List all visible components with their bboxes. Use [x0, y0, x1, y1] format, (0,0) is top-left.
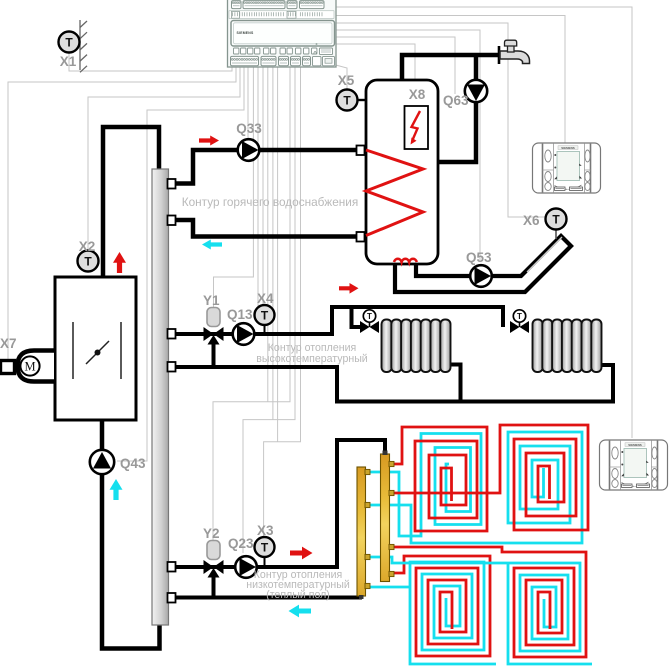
node separator stub HT supply — [168, 329, 176, 339]
wire solar collector loop upper pipe through Q53 — [395, 236, 571, 292]
wire controller to X7 — [8, 67, 236, 359]
wire controller spare 3 — [277, 67, 279, 442]
svg-text:X8: X8 — [409, 87, 426, 102]
flow arrow boiler supply — [113, 252, 126, 273]
wire HT radiator 1 feed drop — [352, 307, 361, 327]
node tank coil stub upper — [357, 146, 365, 156]
svg-text:T: T — [367, 312, 372, 321]
svg-text:T: T — [261, 308, 269, 322]
svg-text:Q53: Q53 — [466, 250, 492, 265]
pump Q43 — [90, 450, 114, 474]
flow arrow LT supply — [290, 547, 313, 560]
wire LT floor return pipe from manifold — [176, 594, 362, 598]
node separator stub HT return — [168, 362, 176, 372]
svg-text:(теплый пол): (теплый пол) — [266, 589, 330, 601]
sensor X6 — [546, 209, 567, 230]
sensor X2 — [78, 251, 99, 272]
wire controller to X1 — [69, 52, 232, 71]
svg-text:высокотемпературный: высокотемпературный — [256, 353, 368, 365]
wire controller to X6 — [336, 23, 546, 217]
wire DHW primary supply pipe through Q33 to tank coil — [176, 150, 360, 184]
wire HT heating return pipe — [176, 365, 613, 402]
flow arrow LT return — [289, 605, 312, 618]
wire DHW primary return pipe from tank coil — [176, 220, 360, 237]
node separator stub LT return — [168, 593, 176, 603]
sensor X4 — [264, 324, 266, 334]
svg-text:Q43: Q43 — [120, 456, 146, 471]
floor loop 3 return pipe (cyan) — [368, 562, 496, 664]
svg-text:X4: X4 — [257, 291, 274, 306]
wire controller to Q33 — [247, 67, 249, 138]
svg-text:Q33: Q33 — [236, 121, 262, 136]
svg-text:X2: X2 — [79, 239, 96, 254]
svg-text:T: T — [343, 93, 351, 107]
electric heater — [405, 106, 429, 149]
svg-text:T: T — [84, 254, 92, 268]
wire Y2 valve bypass link — [212, 575, 216, 598]
svg-text:X7: X7 — [0, 336, 17, 351]
pump Q53 — [470, 265, 492, 287]
svg-text:X1: X1 — [60, 54, 77, 69]
svg-text:Y2: Y2 — [203, 526, 220, 541]
svg-text:Контур горячего водоснабжения: Контур горячего водоснабжения — [182, 195, 359, 209]
wire controller to X5 — [332, 64, 347, 90]
storage tank X8 — [366, 80, 438, 264]
wire controller spare 2 — [272, 67, 274, 420]
wire HT heating supply pipe through Y1 and Q13 — [176, 307, 503, 334]
wire collector panel highlight — [527, 237, 562, 272]
svg-text:Q23: Q23 — [228, 536, 254, 551]
svg-text:Q63: Q63 — [443, 93, 469, 108]
valve Y1 three-way — [204, 327, 214, 341]
pump Q33 — [238, 139, 260, 161]
wire DHW circulation pipe through Q63 — [436, 55, 476, 162]
svg-text:T: T — [65, 35, 73, 49]
wire controller to Q63 — [336, 37, 455, 94]
wire Y1 valve bypass link — [212, 342, 216, 367]
hydraulic separator — [152, 169, 169, 625]
floor loop 2 return pipe (cyan) — [368, 432, 582, 543]
wire controller to X3 — [264, 67, 301, 536]
boiler damper symbol — [72, 322, 74, 379]
motor X7 — [18, 351, 55, 382]
svg-text:T: T — [261, 540, 269, 554]
svg-text:X3: X3 — [257, 523, 274, 538]
wire radiator 1 return drop — [449, 365, 461, 402]
radiator 2 — [533, 320, 543, 373]
wire LT floor supply pipe through Y2 and Q23 — [176, 440, 385, 567]
svg-text:T: T — [552, 212, 560, 226]
boiler — [55, 277, 136, 420]
flow arrow HT supply — [339, 283, 359, 294]
thermostatic valve radiator 2 — [510, 321, 520, 333]
wire controller to X4 — [262, 67, 264, 305]
tank heat exchanger coil — [366, 150, 423, 236]
svg-text:SIEMENS: SIEMENS — [237, 31, 254, 35]
floor loop 4 supply pipe (red spiral) — [388, 547, 586, 657]
room unit A (QAA) — [533, 143, 601, 193]
wire boiler return pipe from separator bottom through Q43 — [102, 421, 160, 649]
pump Q63 — [465, 80, 487, 102]
wire controller to room unit A — [336, 16, 565, 144]
floor heating manifold right (supply) — [381, 454, 390, 582]
flow arrow boiler return — [110, 479, 123, 500]
svg-text:X5: X5 — [338, 73, 355, 88]
wire controller to Q43 — [117, 67, 244, 461]
wire controller spare 1 — [267, 67, 269, 402]
radiator 1 — [382, 320, 392, 373]
controller U1 (Siemens) — [228, 0, 337, 67]
wire controller to X8 heater — [336, 44, 415, 104]
flow arrow DHW return — [202, 240, 222, 250]
svg-text:Y1: Y1 — [203, 293, 220, 308]
valve Y2 three-way — [204, 560, 214, 574]
wire controller to Q53 — [336, 30, 480, 260]
node tank coil stub lower — [357, 232, 365, 242]
floor loop 4 return pipe (cyan) — [368, 557, 592, 664]
wall hatching — [79, 20, 81, 70]
svg-text:M: M — [24, 360, 35, 374]
room unit B (QAA) — [600, 440, 668, 490]
node separator stub DHW return — [168, 216, 176, 226]
wire boiler supply pipe to separator — [103, 127, 159, 276]
faucet — [498, 46, 501, 64]
wire controller to X2 — [88, 67, 240, 249]
node separator stub DHW supply — [168, 179, 176, 189]
node separator stub LT supply — [168, 562, 176, 572]
wire tank top pipe to faucet — [402, 55, 499, 84]
solar coil at tank bottom — [394, 259, 417, 262]
wire controller to Y1 — [214, 67, 254, 307]
floor loop 3 supply pipe (red spiral) — [388, 556, 490, 656]
pump Q13 — [233, 323, 255, 345]
wire controller to room unit B — [336, 7, 632, 438]
floor heating manifold left (return) — [357, 467, 366, 596]
sensor X1 — [59, 32, 80, 53]
flow arrow DHW supply — [199, 136, 219, 146]
wire controller to Y2 — [213, 67, 290, 540]
pump Q23 — [235, 556, 257, 578]
sensor X3 — [264, 557, 266, 567]
wire controller to Q23 — [243, 67, 295, 553]
floor loop 2 supply pipe (red spiral) — [388, 425, 588, 530]
thermostatic valve radiator 1 — [360, 321, 370, 333]
sensor X5 — [356, 99, 367, 101]
svg-text:Q13: Q13 — [227, 307, 253, 322]
svg-text:T: T — [517, 312, 522, 321]
wire controller to Q13 — [257, 67, 259, 321]
svg-text:X6: X6 — [523, 213, 540, 228]
wire X6 sensor stem — [555, 228, 557, 239]
floor loop 1 return pipe (cyan) — [368, 434, 481, 537]
floor loop 1 supply pipe (red spiral) — [388, 427, 487, 531]
